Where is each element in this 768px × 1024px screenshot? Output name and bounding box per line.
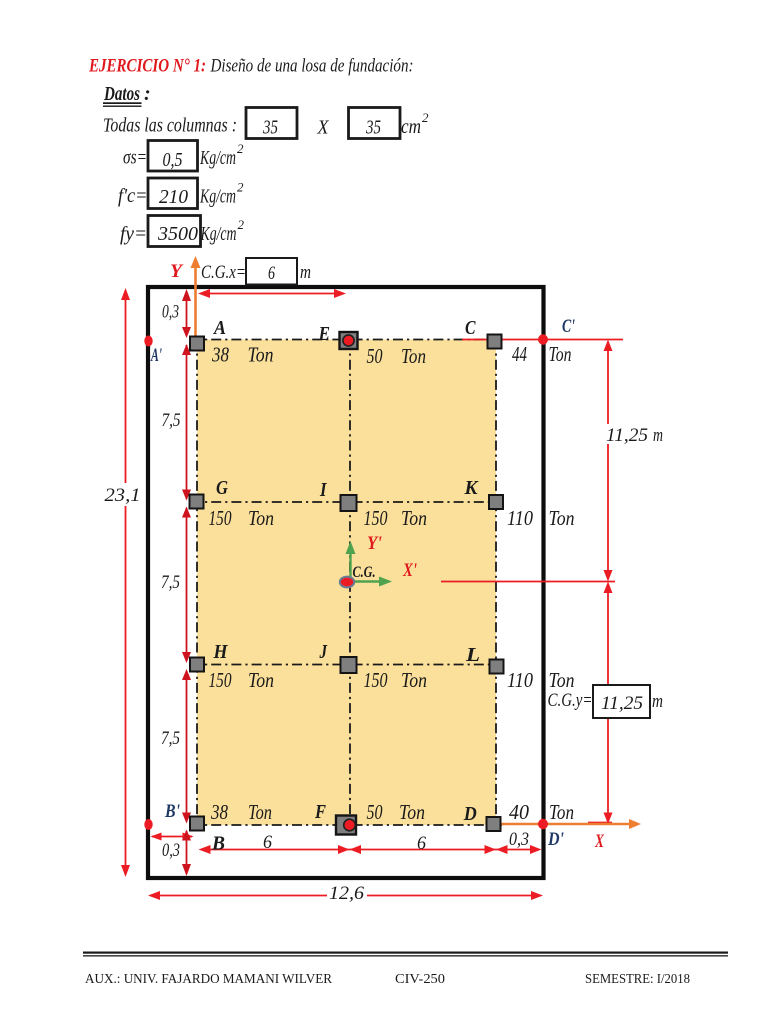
svg-text:SEMESTRE: I/2018: SEMESTRE: I/2018	[585, 972, 690, 987]
svg-text:E: E	[318, 323, 330, 345]
svg-text:38: 38	[210, 800, 228, 824]
svg-text:X: X	[317, 117, 330, 139]
svg-text:B: B	[211, 833, 225, 855]
svg-text:50: 50	[367, 344, 383, 368]
svg-text:D': D'	[547, 829, 564, 850]
svg-text:6: 6	[268, 263, 275, 284]
svg-text:A: A	[212, 317, 226, 339]
svg-text:C: C	[465, 317, 476, 339]
svg-text:35: 35	[365, 117, 381, 139]
svg-text:H: H	[213, 641, 229, 663]
svg-text:X: X	[594, 831, 605, 852]
svg-text:0,3: 0,3	[509, 829, 529, 850]
svg-text:11,25: 11,25	[601, 693, 643, 714]
svg-text:fy=: fy=	[120, 223, 147, 245]
svg-text:35: 35	[262, 117, 278, 139]
svg-text:Ton: Ton	[248, 800, 272, 824]
svg-text:Ton: Ton	[549, 800, 574, 824]
svg-text:G: G	[216, 477, 228, 499]
svg-text:12,6: 12,6	[329, 883, 365, 904]
svg-text:Ton: Ton	[549, 342, 572, 366]
svg-text:2: 2	[238, 217, 245, 232]
svg-text:Kg/cm: Kg/cm	[199, 186, 236, 208]
svg-text:I: I	[319, 479, 327, 501]
svg-text:Ton: Ton	[248, 668, 274, 692]
svg-text:EJERCICIO N° 1:: EJERCICIO N° 1:	[88, 56, 206, 77]
svg-text:2: 2	[422, 110, 429, 125]
svg-text:Ton: Ton	[248, 506, 274, 530]
svg-text:Diseño de una losa de fundació: Diseño de una losa de fundación:	[210, 56, 414, 77]
svg-text:Ton: Ton	[401, 668, 427, 692]
svg-text:0,3: 0,3	[162, 302, 179, 323]
svg-text:Kg/cm: Kg/cm	[200, 223, 237, 245]
svg-text:J: J	[319, 641, 328, 663]
svg-text:44: 44	[512, 342, 527, 366]
svg-text:AUX.: UNIV. FAJARDO MAMANI WIL: AUX.: UNIV. FAJARDO MAMANI WILVER	[85, 972, 333, 987]
svg-text:m: m	[300, 262, 311, 283]
svg-text:Ton: Ton	[401, 344, 426, 368]
svg-text:B': B'	[164, 801, 180, 822]
svg-text:A': A'	[150, 345, 162, 366]
svg-text:Todas las columnas :: Todas las columnas :	[103, 115, 237, 137]
svg-text:C.G.: C.G.	[353, 564, 376, 581]
svg-text:150: 150	[364, 506, 388, 530]
svg-text:7,5: 7,5	[162, 410, 181, 431]
svg-text:Ton: Ton	[401, 506, 427, 530]
svg-text:7,5: 7,5	[161, 728, 180, 749]
svg-text:X': X'	[402, 560, 417, 581]
svg-text:L: L	[465, 644, 480, 666]
svg-text:0,5: 0,5	[163, 149, 183, 171]
svg-text:σs=: σs=	[123, 147, 147, 169]
svg-text:2: 2	[237, 141, 244, 156]
svg-text:Ton: Ton	[549, 668, 575, 692]
svg-text:f'c=: f'c=	[118, 185, 148, 207]
svg-text:6: 6	[417, 833, 426, 854]
svg-text:50: 50	[367, 800, 383, 824]
svg-text:150: 150	[209, 506, 232, 530]
svg-text:Ton: Ton	[549, 506, 575, 530]
svg-text:3500: 3500	[157, 223, 198, 245]
svg-text:Y': Y'	[367, 533, 382, 554]
svg-text:K: K	[464, 477, 480, 499]
svg-text:6: 6	[263, 832, 272, 853]
svg-text:Ton: Ton	[399, 800, 425, 824]
svg-text:7,5: 7,5	[161, 572, 180, 593]
svg-text:CIV-250: CIV-250	[395, 972, 445, 987]
svg-text:C.G.x=: C.G.x=	[201, 262, 246, 283]
svg-text:cm: cm	[401, 116, 421, 138]
svg-text:C': C'	[562, 316, 575, 337]
svg-text:Y: Y	[170, 261, 184, 282]
svg-text:m: m	[653, 425, 663, 446]
svg-text:m: m	[652, 691, 663, 712]
svg-text:38: 38	[211, 343, 229, 367]
svg-text:Ton: Ton	[248, 343, 274, 367]
svg-text:150: 150	[209, 668, 232, 692]
svg-text:Kg/cm: Kg/cm	[199, 147, 236, 169]
svg-text::: :	[144, 83, 151, 105]
svg-text:0,3: 0,3	[162, 840, 180, 861]
svg-text:40: 40	[509, 800, 529, 824]
svg-text:2: 2	[237, 180, 244, 195]
svg-text:C.G.y=: C.G.y=	[548, 690, 593, 711]
svg-text:210: 210	[159, 186, 188, 208]
svg-text:23,1: 23,1	[105, 485, 141, 506]
svg-text:110: 110	[507, 506, 533, 530]
svg-text:11,25: 11,25	[606, 425, 648, 446]
svg-text:110: 110	[507, 668, 533, 692]
svg-text:Datos: Datos	[103, 83, 140, 105]
svg-text:D: D	[463, 803, 477, 825]
svg-text:150: 150	[364, 668, 388, 692]
svg-text:F: F	[314, 801, 326, 823]
